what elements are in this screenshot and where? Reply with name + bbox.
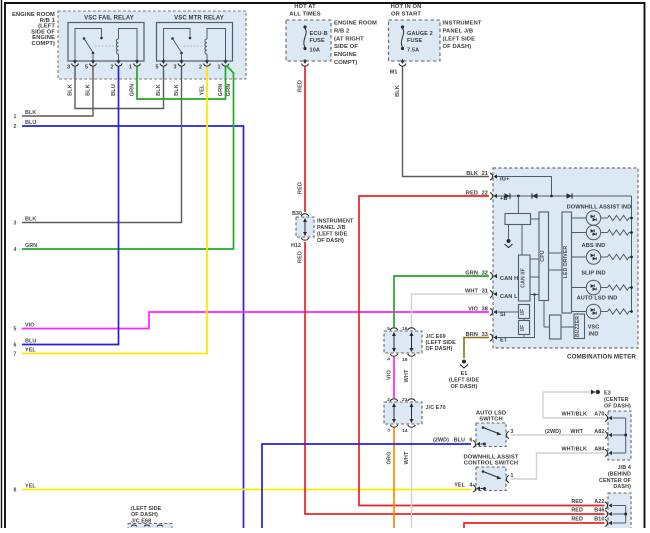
svg-text:J/C E70: J/C E70 <box>426 405 446 411</box>
svg-text:IG+: IG+ <box>500 177 510 183</box>
svg-text:OF DASH): OF DASH) <box>443 44 472 50</box>
svg-text:(CENTER: (CENTER <box>604 397 629 403</box>
svg-text:H12: H12 <box>291 243 301 249</box>
svg-text:IND: IND <box>589 332 599 338</box>
svg-text:4: 4 <box>469 483 472 489</box>
svg-text:7: 7 <box>14 352 17 358</box>
svg-text:OF DASH): OF DASH) <box>426 346 453 352</box>
svg-text:(LEFT SIDE: (LEFT SIDE <box>317 232 348 238</box>
svg-text:5: 5 <box>14 327 17 333</box>
svg-text:(LEFT SIDE: (LEFT SIDE <box>131 506 162 512</box>
svg-text:PANEL J/B: PANEL J/B <box>443 28 474 34</box>
svg-text:CAN L: CAN L <box>500 294 518 300</box>
svg-text:E1: E1 <box>461 371 468 377</box>
svg-text:FUSE: FUSE <box>310 38 325 44</box>
svg-text:BLU: BLU <box>25 339 36 345</box>
svg-text:CPU: CPU <box>540 250 546 261</box>
svg-text:ABS IND: ABS IND <box>582 243 606 249</box>
svg-text:2: 2 <box>387 397 390 403</box>
svg-text:DASH): DASH) <box>613 484 631 490</box>
svg-text:16: 16 <box>402 326 408 332</box>
svg-text:10A: 10A <box>310 48 321 54</box>
svg-text:(LEFT SIDE: (LEFT SIDE <box>449 378 480 384</box>
svg-text:B46: B46 <box>594 508 604 514</box>
svg-text:B30: B30 <box>292 211 302 217</box>
svg-text:CAN H: CAN H <box>500 276 518 282</box>
svg-text:OF DASH): OF DASH) <box>317 238 344 244</box>
svg-text:BLU: BLU <box>25 120 36 126</box>
svg-text:FUSE: FUSE <box>407 38 422 44</box>
svg-text:ORG: ORG <box>386 451 392 464</box>
svg-text:HOT IN ON: HOT IN ON <box>391 4 422 10</box>
svg-text:LED DRIVER: LED DRIVER <box>563 246 569 279</box>
svg-text:YEL: YEL <box>25 348 36 354</box>
svg-text:YEL: YEL <box>199 84 205 96</box>
svg-text:AUTO LSD IND: AUTO LSD IND <box>577 296 618 302</box>
svg-text:3: 3 <box>387 428 390 434</box>
svg-text:GRN: GRN <box>218 84 224 97</box>
svg-text:DOWNHILL ASSIST IND: DOWNHILL ASSIST IND <box>567 205 632 211</box>
svg-text:15: 15 <box>402 357 408 363</box>
svg-text:3: 3 <box>67 65 70 71</box>
svg-text:VIO: VIO <box>386 369 392 379</box>
svg-text:BUZZER: BUZZER <box>575 316 581 337</box>
svg-text:6: 6 <box>14 343 17 349</box>
svg-text:(2WD): (2WD) <box>433 438 449 444</box>
svg-text:SIDE OF: SIDE OF <box>334 44 358 50</box>
svg-text:INSTRUMENT: INSTRUMENT <box>317 219 354 225</box>
svg-text:4: 4 <box>14 247 17 253</box>
svg-text:ECU-B: ECU-B <box>310 31 328 37</box>
svg-text:BLK: BLK <box>67 84 73 96</box>
svg-text:GRN: GRN <box>129 84 135 97</box>
svg-text:(BEHIND: (BEHIND <box>608 471 631 477</box>
svg-text:COMPT): COMPT) <box>32 41 55 47</box>
svg-text:OF DASH): OF DASH) <box>604 404 631 410</box>
svg-text:SLIP IND: SLIP IND <box>581 271 605 277</box>
svg-text:1: 1 <box>217 65 220 71</box>
svg-text:8: 8 <box>14 488 17 494</box>
svg-text:E3: E3 <box>604 391 611 397</box>
svg-text:1: 1 <box>129 65 132 71</box>
svg-text:YEL: YEL <box>454 483 465 489</box>
svg-text:VSC FAIL RELAY: VSC FAIL RELAY <box>84 16 134 22</box>
svg-text:1: 1 <box>14 114 17 120</box>
svg-text:RED: RED <box>571 499 583 505</box>
svg-text:VIO: VIO <box>25 323 35 329</box>
svg-text:(LEFT SIDE: (LEFT SIDE <box>443 36 476 42</box>
svg-text:B10: B10 <box>594 517 604 523</box>
svg-text:CAN I/F: CAN I/F <box>521 268 527 287</box>
svg-text:BLK: BLK <box>25 110 36 116</box>
svg-text:PANEL J/B: PANEL J/B <box>317 225 346 231</box>
svg-text:1: 1 <box>511 473 514 479</box>
svg-text:BLK: BLK <box>156 84 162 96</box>
svg-text:VSC: VSC <box>588 325 600 331</box>
svg-text:ENGINE ROOM: ENGINE ROOM <box>334 21 377 27</box>
svg-text:ET: ET <box>500 338 508 344</box>
svg-text:I/F: I/F <box>520 309 526 315</box>
svg-text:BLK: BLK <box>174 84 180 96</box>
svg-text:INSTRUMENT: INSTRUMENT <box>443 21 482 27</box>
svg-text:I/F: I/F <box>520 325 526 331</box>
svg-text:5: 5 <box>155 65 158 71</box>
svg-text:A70: A70 <box>594 412 604 418</box>
svg-text:3: 3 <box>173 65 176 71</box>
svg-text:R/B 2: R/B 2 <box>334 28 349 34</box>
svg-text:A22: A22 <box>594 499 604 505</box>
svg-text:14: 14 <box>402 428 408 434</box>
svg-text:4: 4 <box>387 357 390 363</box>
svg-text:BLK: BLK <box>395 85 401 97</box>
svg-text:WHT/BLK: WHT/BLK <box>561 412 587 418</box>
svg-text:GRN: GRN <box>25 243 37 249</box>
svg-text:OF DASH): OF DASH) <box>131 512 158 518</box>
svg-text:5: 5 <box>387 326 390 332</box>
svg-text:OF DASH): OF DASH) <box>451 384 478 390</box>
svg-text:7.5A: 7.5A <box>407 48 419 54</box>
svg-text:3: 3 <box>14 221 17 227</box>
svg-text:A84: A84 <box>594 447 604 453</box>
svg-text:COMBINATION METER: COMBINATION METER <box>567 354 636 361</box>
svg-text:23: 23 <box>402 397 408 403</box>
svg-text:RED: RED <box>571 508 583 514</box>
svg-text:VSC MTR RELAY: VSC MTR RELAY <box>174 16 224 22</box>
svg-text:A82: A82 <box>594 429 604 435</box>
svg-text:COMPT): COMPT) <box>334 60 357 66</box>
svg-text:2: 2 <box>199 65 202 71</box>
svg-text:5: 5 <box>85 65 88 71</box>
svg-text:ENGINE: ENGINE <box>334 52 357 58</box>
svg-text:CENTER OF: CENTER OF <box>599 478 632 484</box>
svg-text:HOT AT: HOT AT <box>294 4 316 10</box>
svg-text:GAUGE 2: GAUGE 2 <box>407 31 433 37</box>
svg-text:WHT: WHT <box>404 451 410 465</box>
svg-text:WHT: WHT <box>570 429 583 435</box>
svg-text:J/B 4: J/B 4 <box>618 465 631 471</box>
svg-text:YEL: YEL <box>25 484 36 490</box>
svg-text:(AT RIGHT: (AT RIGHT <box>334 36 364 42</box>
svg-text:BLK: BLK <box>85 84 91 96</box>
svg-text:2: 2 <box>110 65 113 71</box>
svg-text:2: 2 <box>14 124 17 130</box>
svg-text:(2WD): (2WD) <box>545 429 561 435</box>
svg-text:GRN: GRN <box>226 84 232 97</box>
svg-text:OR START: OR START <box>391 12 421 18</box>
svg-text:WHT: WHT <box>404 369 410 383</box>
svg-text:RED: RED <box>571 517 583 523</box>
svg-text:SWITCH: SWITCH <box>479 417 502 423</box>
svg-text:RED: RED <box>298 182 304 194</box>
svg-text:BLU: BLU <box>111 84 117 96</box>
svg-text:6: 6 <box>469 438 472 444</box>
svg-text:SI: SI <box>500 312 506 318</box>
svg-text:ALL TIMES: ALL TIMES <box>289 12 320 18</box>
svg-text:RED: RED <box>298 80 304 92</box>
svg-text:CONTROL SWITCH: CONTROL SWITCH <box>464 461 518 467</box>
svg-text:WHT/BLK: WHT/BLK <box>561 447 587 453</box>
svg-text:3: 3 <box>511 429 514 435</box>
svg-text:M1: M1 <box>390 70 398 76</box>
svg-text:RED: RED <box>298 251 304 263</box>
svg-text:BLK: BLK <box>25 217 36 223</box>
svg-text:BLU: BLU <box>454 438 465 444</box>
